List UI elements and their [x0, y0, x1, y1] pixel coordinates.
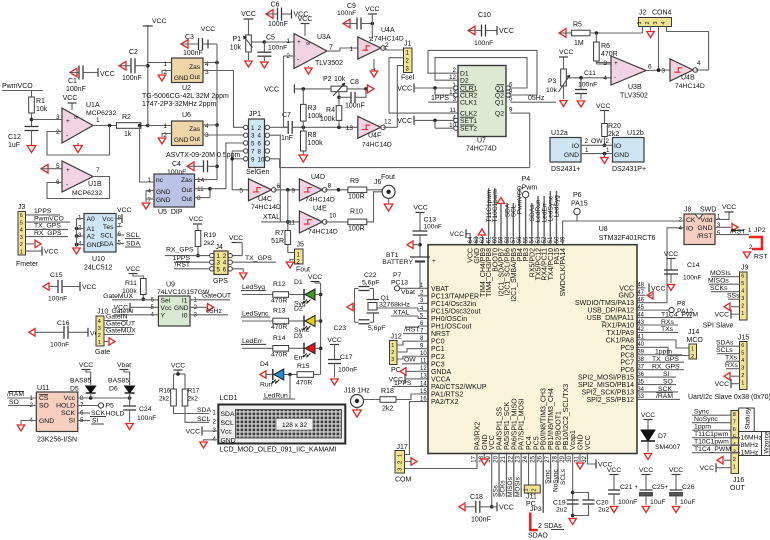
svg-text:SDA: SDA [100, 241, 114, 248]
svg-text:PC4: PC4 [526, 436, 533, 450]
svg-text:-: - [614, 74, 616, 81]
svg-text:C3: C3 [185, 34, 194, 41]
svg-text:SCL: SCL [221, 420, 234, 427]
svg-text:PC5: PC5 [533, 436, 540, 450]
svg-text:PA5/SPI1_SCK: PA5/SPI1_SCK [504, 402, 511, 450]
svg-text:1: 1 [286, 38, 290, 45]
svg-text:PC7: PC7 [620, 360, 634, 367]
svg-text:C26: C26 [682, 484, 695, 491]
svg-text:5: 5 [741, 281, 744, 287]
svg-text:J17: J17 [397, 444, 408, 451]
svg-text:GND: GND [614, 152, 629, 159]
svg-text:J15: J15 [738, 335, 749, 342]
svg-text:TX1/PA9: TX1/PA9 [607, 330, 635, 337]
svg-text:VCC: VCC [126, 266, 140, 273]
svg-text:PA2/TX2: PA2/TX2 [431, 399, 459, 406]
svg-text:R4: R4 [326, 107, 335, 114]
svg-text:CK: CK [686, 217, 696, 224]
svg-text:8: 8 [72, 116, 78, 119]
svg-text:HOLD: HOLD [56, 403, 75, 410]
svg-text:3: 3 [98, 326, 101, 332]
svg-text:SI: SI [69, 418, 76, 425]
svg-text:U4D: U4D [311, 174, 325, 181]
svg-text:4: 4 [147, 188, 151, 195]
svg-text:2u2: 2u2 [598, 507, 610, 514]
svg-text:T1C4_PWM: T1C4_PWM [694, 446, 731, 453]
svg-text:8: 8 [258, 149, 262, 156]
svg-text:5,6pF: 5,6pF [368, 325, 385, 332]
svg-text:100nF: 100nF [618, 499, 637, 506]
svg-text:100R: 100R [348, 226, 365, 233]
svg-text:SI: SI [92, 418, 99, 425]
svg-text:GND: GND [618, 293, 634, 300]
svg-text:T10C1pwm: T10C1pwm [694, 439, 729, 446]
svg-text:100nF: 100nF [137, 415, 156, 422]
svg-text:U3A: U3A [317, 34, 331, 41]
svg-text:VCC: VCC [365, 6, 379, 13]
svg-text:SCLs: SCLs [716, 347, 733, 354]
svg-text:NRST: NRST [431, 331, 451, 338]
svg-text:VCC: VCC [189, 216, 203, 223]
svg-text:100nF: 100nF [183, 50, 203, 57]
svg-text:U8: U8 [599, 226, 608, 233]
svg-text:05Hz: 05Hz [528, 95, 545, 102]
svg-text:VCC: VCC [171, 363, 185, 370]
svg-text:SDA: SDA [221, 411, 235, 418]
svg-text:8: 8 [197, 195, 201, 202]
svg-text:C1: C1 [68, 78, 77, 85]
svg-text:44: 44 [637, 312, 644, 318]
svg-text:TLV3502: TLV3502 [620, 93, 648, 100]
svg-text:GND: GND [174, 75, 189, 82]
svg-text:PC6: PC6 [620, 367, 634, 374]
svg-text:XTAL: XTAL [263, 214, 280, 221]
svg-text:PC2: PC2 [431, 354, 445, 361]
svg-text:C24: C24 [139, 406, 152, 413]
svg-text:VCC: VCC [152, 18, 166, 25]
svg-text:T11C1pwm: T11C1pwm [694, 431, 729, 438]
svg-text:SCLs: SCLs [560, 468, 567, 485]
svg-text:-: - [66, 181, 68, 188]
svg-text:16: 16 [420, 396, 427, 402]
svg-text:100nF: 100nF [471, 517, 491, 524]
svg-text:10: 10 [258, 156, 265, 163]
svg-text:2 SDAs: 2 SDAs [538, 523, 562, 530]
svg-text:57: 57 [511, 236, 517, 243]
svg-text:15: 15 [420, 389, 427, 395]
svg-text:C13: C13 [424, 217, 437, 224]
svg-text:+: + [432, 258, 436, 265]
svg-text:GateIN: GateIN [106, 314, 128, 321]
svg-text:100nF: 100nF [48, 296, 67, 303]
svg-text:VCC: VCC [186, 429, 200, 436]
svg-text:Fmeter: Fmeter [16, 261, 39, 268]
svg-text:2: 2 [733, 457, 736, 463]
svg-text:1M: 1M [574, 40, 584, 47]
svg-text:PB0/IN8/TIM3_CH3: PB0/IN8/TIM3_CH3 [541, 388, 548, 450]
svg-text:53: 53 [536, 236, 542, 243]
svg-text:GateOUT: GateOUT [202, 293, 231, 300]
svg-text:100k: 100k [308, 140, 324, 147]
svg-text:VCC: VCC [413, 205, 427, 212]
svg-text:54: 54 [530, 236, 536, 243]
svg-text:LCD1: LCD1 [220, 395, 238, 402]
svg-text:100nF: 100nF [338, 367, 357, 374]
svg-text:Fout: Fout [381, 174, 395, 181]
svg-text:3: 3 [661, 68, 665, 75]
svg-text:I1: I1 [182, 297, 188, 304]
svg-text:38: 38 [637, 357, 644, 363]
svg-text:SCK: SCK [658, 386, 672, 393]
svg-text:CLK1: CLK1 [460, 100, 477, 107]
svg-text:A2: A2 [87, 234, 96, 241]
svg-text:2: 2 [56, 129, 60, 136]
svg-text:63: 63 [474, 236, 480, 243]
svg-text:5: 5 [251, 141, 255, 148]
svg-text:R5: R5 [573, 22, 582, 29]
svg-text:Q1: Q1 [381, 295, 390, 302]
svg-text:2: 2 [258, 125, 262, 132]
svg-text:C23: C23 [334, 325, 347, 332]
svg-text:J11: J11 [526, 494, 537, 501]
svg-text:C25: C25 [652, 484, 665, 491]
svg-text:VCC: VCC [63, 95, 78, 102]
svg-text:OW: OW [591, 138, 603, 145]
svg-text:16MHz: 16MHz [741, 435, 763, 442]
svg-text:13: 13 [346, 125, 354, 132]
svg-text:4: 4 [205, 123, 209, 130]
svg-text:D2: D2 [294, 306, 303, 313]
svg-text:A0: A0 [87, 216, 96, 223]
svg-text:RX1/PA10: RX1/PA10 [602, 323, 634, 330]
svg-text:D1: D1 [460, 71, 469, 78]
svg-text:SelGen: SelGen [246, 169, 269, 176]
svg-text:VCC: VCC [700, 465, 714, 472]
svg-text:SCK: SCK [61, 410, 75, 417]
svg-text:R16: R16 [159, 388, 171, 395]
svg-text:Tes: Tes [103, 224, 114, 231]
svg-text:1: 1 [637, 21, 643, 24]
svg-text:7: 7 [733, 420, 736, 426]
svg-text:LedErr: LedErr [242, 338, 263, 345]
svg-text:2: 2 [749, 244, 753, 251]
svg-text:74HC74D: 74HC74D [466, 146, 497, 153]
svg-text:LedSyg: LedSyg [242, 284, 265, 291]
svg-text:9: 9 [291, 188, 295, 195]
svg-text:6: 6 [223, 266, 227, 273]
svg-text:J9: J9 [741, 265, 749, 272]
svg-text:J4: J4 [216, 244, 224, 251]
svg-text:U9: U9 [166, 282, 175, 289]
svg-text:D6: D6 [109, 386, 118, 393]
svg-text:1: 1 [733, 465, 736, 471]
svg-text:10k: 10k [230, 45, 242, 52]
svg-text:PwmVCO: PwmVCO [34, 215, 64, 222]
svg-text:100R: 100R [348, 194, 365, 201]
svg-text:PA6/SPI1_MISO: PA6/SPI1_MISO [511, 398, 518, 450]
svg-text:J12: J12 [391, 334, 402, 341]
svg-text:PC: PC [391, 367, 401, 374]
svg-text:56: 56 [517, 236, 523, 243]
svg-text:10k: 10k [36, 106, 48, 113]
svg-text:470R: 470R [271, 298, 287, 305]
svg-text:74HC14D: 74HC14D [251, 204, 281, 211]
svg-text:10k: 10k [546, 87, 558, 94]
svg-text:Q1: Q1 [495, 100, 504, 107]
svg-text:2: 2 [532, 488, 538, 491]
svg-text:SPI2_SCK/PB13: SPI2_SCK/PB13 [581, 389, 634, 396]
svg-text:VCC: VCC [619, 285, 634, 292]
svg-text:C8: C8 [350, 79, 359, 86]
svg-text:SM4007: SM4007 [655, 444, 681, 451]
svg-text:10k: 10k [334, 76, 346, 83]
svg-text:6: 6 [20, 213, 23, 219]
svg-text:7: 7 [96, 167, 100, 174]
svg-text:MCO: MCO [687, 337, 704, 344]
svg-text:10uF: 10uF [680, 499, 696, 506]
svg-text:14: 14 [420, 381, 427, 387]
svg-text:PC13/TAMPER: PC13/TAMPER [431, 293, 479, 300]
svg-text:1k: 1k [124, 131, 132, 138]
svg-text:nc: nc [156, 177, 164, 184]
svg-text:PC8: PC8 [620, 352, 634, 359]
svg-text:8: 8 [733, 412, 736, 418]
svg-text:R10: R10 [350, 209, 363, 216]
svg-text:J3: J3 [18, 204, 26, 211]
svg-text:4: 4 [697, 60, 701, 67]
svg-text:NoSync: NoSync [694, 416, 718, 423]
svg-text:SCKs: SCKs [500, 480, 507, 497]
svg-text:40: 40 [637, 342, 644, 348]
svg-text:3: 3 [398, 468, 404, 471]
svg-text:I0: I0 [182, 312, 188, 319]
svg-text:29: 29 [560, 455, 566, 462]
svg-text:U11: U11 [37, 385, 49, 392]
svg-text:GateMUX: GateMUX [103, 293, 133, 300]
svg-text:Vdd: Vdd [700, 217, 712, 224]
svg-text:GND: GND [564, 152, 579, 159]
svg-text:C5: C5 [266, 35, 275, 42]
svg-text:D7: D7 [658, 433, 667, 440]
svg-text:Zas: Zas [189, 64, 201, 71]
svg-text:LedSync: LedSync [242, 311, 269, 318]
svg-text:SO: SO [39, 403, 49, 410]
svg-text:VCC: VCC [669, 467, 683, 474]
svg-text:100nF: 100nF [424, 224, 442, 231]
svg-text:100nF: 100nF [268, 45, 287, 52]
svg-text:5: 5 [239, 188, 243, 195]
svg-text:6: 6 [258, 141, 262, 148]
svg-text:41: 41 [637, 335, 644, 341]
svg-text:P1: P1 [232, 36, 241, 43]
svg-text:GND: GND [221, 437, 236, 444]
svg-text:TXs: TXs [725, 355, 738, 362]
svg-text:Zas: Zas [181, 177, 193, 184]
svg-text:P2: P2 [323, 76, 332, 83]
svg-text:STM32F401RCT6: STM32F401RCT6 [599, 235, 656, 242]
svg-text:JP3: JP3 [530, 506, 542, 513]
svg-text:VCC: VCC [499, 505, 514, 512]
svg-text:C10: C10 [478, 12, 491, 19]
svg-text:U4F: U4F [368, 133, 381, 140]
svg-text:1: 1 [251, 125, 255, 132]
svg-text:P3: P3 [548, 78, 557, 85]
svg-text:39: 39 [637, 350, 644, 356]
svg-text:74HC14D: 74HC14D [362, 142, 392, 149]
svg-text:CON4: CON4 [652, 10, 672, 17]
svg-text:4: 4 [741, 289, 744, 295]
svg-text:Zas: Zas [189, 126, 201, 133]
svg-text:2: 2 [98, 333, 101, 339]
svg-text:TX_GPS: TX_GPS [245, 255, 272, 262]
svg-text:4: 4 [603, 75, 607, 82]
svg-text:2: 2 [741, 304, 744, 310]
svg-text:SET1: SET1 [460, 118, 477, 125]
svg-text:8MHz: 8MHz [741, 442, 759, 449]
svg-text:PA0/CTS2/WKUP: PA0/CTS2/WKUP [431, 384, 487, 391]
svg-text:1: 1 [398, 454, 404, 457]
svg-text:1: 1 [741, 381, 744, 387]
svg-text:U4A: U4A [381, 27, 395, 34]
svg-text:SWDIO/TMS/PA13: SWDIO/TMS/PA13 [575, 300, 634, 307]
svg-text:PwmVCO: PwmVCO [2, 83, 33, 90]
svg-text:3: 3 [741, 366, 744, 372]
svg-text:49: 49 [560, 236, 566, 243]
svg-text:PB2/BOOT1: PB2/BOOT1 [555, 411, 562, 450]
svg-text:10uF: 10uF [650, 499, 666, 506]
svg-text:Fout: Fout [296, 267, 310, 274]
svg-text:PC14/Osc32in: PC14/Osc32in [431, 301, 476, 308]
svg-text:P6: P6 [573, 192, 582, 199]
svg-text:Out: Out [182, 187, 193, 194]
svg-text:JP2: JP2 [754, 227, 766, 234]
svg-text:Vbat: Vbat [401, 289, 415, 296]
svg-text:1747-2P3-32MHz 2ppm: 1747-2P3-32MHz 2ppm [142, 101, 216, 108]
svg-text:GPS: GPS [213, 278, 228, 285]
svg-text:J8: J8 [684, 207, 692, 214]
svg-text:PC3: PC3 [431, 361, 445, 368]
svg-text:VCC: VCC [499, 28, 514, 35]
svg-text:Run: Run [260, 382, 273, 389]
svg-text:+: + [66, 167, 70, 174]
svg-text:VCC: VCC [664, 251, 678, 258]
svg-text:4: 4 [20, 228, 23, 234]
svg-text:U4C: U4C [258, 196, 272, 203]
svg-text:100nF: 100nF [50, 342, 69, 349]
svg-text:4: 4 [741, 358, 744, 364]
svg-text:50: 50 [554, 236, 560, 243]
svg-text:100k: 100k [320, 116, 336, 123]
svg-text:1: 1 [20, 249, 23, 255]
svg-text:11: 11 [420, 359, 427, 365]
svg-text:5: 5 [741, 351, 744, 357]
svg-text:1: 1 [98, 340, 101, 346]
svg-text:R15: R15 [297, 363, 310, 370]
svg-text:+: + [614, 60, 618, 67]
svg-text:SCL: SCL [197, 416, 210, 423]
svg-text:T1C4_PWM: T1C4_PWM [661, 311, 698, 318]
svg-text:MCP6232: MCP6232 [72, 190, 102, 197]
svg-text:470R: 470R [601, 51, 618, 58]
svg-text:3: 3 [741, 296, 744, 302]
svg-text:GNDA: GNDA [431, 369, 452, 376]
svg-text:U12a: U12a [551, 130, 568, 137]
svg-text:GND: GND [39, 418, 54, 425]
svg-text:R13: R13 [273, 308, 286, 315]
svg-text:1PPS: 1PPS [431, 95, 449, 102]
svg-text:P7: P7 [393, 272, 402, 279]
svg-text:+: + [634, 485, 638, 491]
svg-text:C17: C17 [340, 354, 353, 361]
svg-text:Q2: Q2 [495, 111, 504, 118]
svg-text:Statusy: Statusy [745, 407, 752, 429]
svg-text:1: 1 [741, 311, 744, 317]
svg-text:SDAs: SDAs [716, 340, 734, 347]
svg-text:74HC14D: 74HC14D [675, 83, 705, 90]
svg-text:LedSyg: LedSyg [554, 195, 561, 217]
svg-text:D3: D3 [294, 333, 303, 340]
svg-text:C12: C12 [8, 134, 21, 141]
svg-text:1: 1 [748, 227, 752, 234]
svg-text:7: 7 [251, 149, 255, 156]
svg-text:64: 64 [468, 236, 474, 243]
svg-text:U10: U10 [92, 256, 105, 263]
svg-text:2k2: 2k2 [382, 406, 393, 413]
svg-text:R11: R11 [125, 280, 137, 287]
svg-text:VCC: VCC [298, 16, 313, 23]
svg-text:Sync: Sync [694, 409, 710, 416]
svg-text:SPI2_MISO/PB14: SPI2_MISO/PB14 [578, 382, 634, 389]
svg-text:COM: COM [395, 477, 412, 484]
svg-text:Out: Out [182, 196, 193, 203]
svg-text:RX_GPS: RX_GPS [166, 247, 194, 254]
svg-text:U12b: U12b [627, 130, 644, 137]
svg-text:100nF: 100nF [337, 10, 356, 17]
svg-text:Y: Y [161, 312, 166, 319]
svg-text:23K256-I/SN: 23K256-I/SN [37, 437, 77, 444]
svg-text:PA3/RX2: PA3/RX2 [475, 422, 482, 450]
svg-text:14: 14 [197, 177, 205, 184]
svg-text:37: 37 [637, 364, 644, 370]
svg-text:2: 2 [213, 418, 217, 425]
svg-text:100nF: 100nF [345, 103, 365, 110]
svg-text:IO: IO [572, 143, 579, 150]
svg-text:PH1/OSCout: PH1/OSCout [431, 324, 472, 331]
svg-text:-: - [297, 56, 299, 63]
svg-text:VCC: VCC [241, 11, 256, 18]
svg-text:RX_GPS: RX_GPS [34, 230, 62, 237]
svg-text:C21: C21 [620, 484, 633, 491]
svg-text:VCC: VCC [397, 118, 412, 125]
svg-text:J5: J5 [297, 242, 305, 249]
svg-text:SDA: SDA [197, 407, 211, 414]
svg-text:U5 DIP: U5 DIP [158, 209, 183, 216]
svg-text:GND: GND [174, 305, 189, 312]
svg-text:R14: R14 [273, 335, 286, 342]
svg-text:U7: U7 [477, 138, 486, 145]
svg-text:VCC: VCC [397, 86, 412, 93]
svg-text:J16: J16 [733, 477, 744, 484]
svg-text:U1B: U1B [88, 181, 102, 188]
svg-text:470R: 470R [271, 351, 287, 358]
svg-text:100nF: 100nF [66, 86, 86, 93]
svg-text:2k2: 2k2 [188, 396, 199, 403]
svg-text:4: 4 [258, 133, 262, 140]
svg-text:3: 3 [56, 114, 60, 121]
svg-text:VCC: VCC [44, 249, 58, 256]
svg-text:2: 2 [606, 138, 610, 145]
svg-text:2k2: 2k2 [204, 240, 215, 247]
